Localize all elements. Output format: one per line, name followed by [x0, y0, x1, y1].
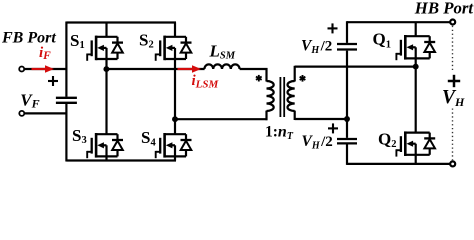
- current arrow i_LSM: [178, 65, 202, 72]
- terminal FB- (bottom-left): [19, 111, 24, 116]
- node A junction dot: [103, 66, 109, 72]
- transistor Q1: [396, 35, 435, 60]
- wire S4 source to bottom bus: [174, 156, 176, 160]
- wire FB left rail upper: [65, 22, 67, 97]
- polarity dot primary: [256, 75, 262, 82]
- transformer primary winding: [267, 81, 274, 111]
- wire FB bottom bus: [66, 159, 176, 161]
- plus sign C_H2: [328, 123, 338, 133]
- plus sign V_H: [448, 75, 460, 87]
- capacitor C_F plates: [56, 98, 77, 103]
- terminal HB- (bottom-right): [450, 161, 455, 166]
- wire secondary bottom to cap midpoint: [295, 118, 347, 120]
- plus sign C_H1: [328, 23, 338, 33]
- wire HB bottom bus: [347, 163, 451, 165]
- wire HB top bus: [347, 21, 451, 23]
- wire FB+ terminal to rail: [24, 68, 67, 70]
- wire secondary bottom corner: [294, 111, 296, 120]
- wire HB cap rail lower: [346, 145, 348, 165]
- wire node A to inductor: [107, 68, 205, 70]
- wire Q2 source to bottom bus: [415, 155, 417, 164]
- plus sign FB cap: [48, 76, 58, 86]
- inductor L_SM: [204, 64, 239, 69]
- wire primary bottom to node B: [175, 118, 268, 120]
- terminal FB+ (top-left): [19, 67, 24, 72]
- wire HB cap rail upper: [346, 21, 348, 43]
- wire primary bottom corner: [265, 111, 267, 121]
- wire S2 source to node B: [174, 59, 176, 119]
- wire node A to S3 drain: [105, 69, 107, 134]
- transistor S4: [156, 133, 192, 158]
- wire Q1 source to node C: [415, 58, 417, 67]
- wire FB top bus: [66, 21, 176, 23]
- wire secondary top corner: [294, 66, 296, 82]
- dotted line V_H upper: [452, 26, 454, 71]
- transformer core: [280, 77, 284, 117]
- current arrow i_F: [32, 65, 55, 72]
- svg-text:FB Port: FB Port: [1, 29, 56, 46]
- wire S2 drain: [174, 23, 176, 37]
- capacitor C_H2 plates: [337, 139, 357, 143]
- wire S1 drain: [105, 23, 107, 37]
- transistor S3: [87, 133, 123, 158]
- wire Q1 drain: [415, 22, 417, 36]
- node C junction dot: [413, 64, 419, 70]
- wire FB- terminal to rail: [24, 112, 66, 114]
- capacitor C_H1 plates: [337, 44, 357, 50]
- wire FB left rail lower: [65, 104, 67, 162]
- cap midpoint junction dot: [344, 116, 350, 122]
- polarity dot secondary: [300, 75, 306, 82]
- wire HB cap rail middle: [346, 51, 348, 138]
- wire node C to Q2 drain: [415, 67, 417, 133]
- dotted line V_H lower: [452, 109, 454, 161]
- transistor S1: [87, 36, 123, 61]
- wire S3 source to bottom bus: [105, 156, 107, 160]
- wire primary top corner: [265, 68, 267, 82]
- wire S1 source to node A: [105, 59, 107, 70]
- terminal HB+ (top-right): [450, 20, 455, 25]
- wire node B to S4 drain: [174, 119, 176, 134]
- transistor Q2: [396, 131, 435, 156]
- transformer secondary winding: [288, 81, 295, 111]
- transistor S2: [156, 36, 192, 61]
- svg-text:HB Port: HB Port: [414, 0, 474, 17]
- wire secondary top to node C: [295, 65, 416, 67]
- node B junction dot: [172, 116, 178, 122]
- wire inductor to transformer: [240, 68, 268, 70]
